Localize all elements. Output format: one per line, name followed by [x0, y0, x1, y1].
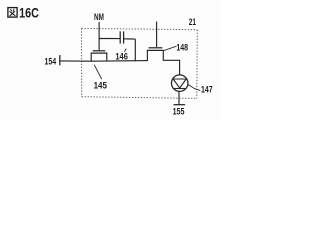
- wire transistor 148 to LED: [163, 60, 180, 75]
- terminal 155 bar: [174, 104, 186, 106]
- LED 147 circle: [171, 75, 188, 92]
- wire terminal 154 to transistor 145: [60, 60, 91, 62]
- svg-text:155: 155: [173, 105, 185, 116]
- leader line for 145: [94, 65, 102, 80]
- capacitor C146 left plate: [119, 31, 121, 43]
- transistor 145 drain leg: [106, 53, 108, 61]
- leader line for 147: [188, 84, 201, 90]
- LED 147 cathode bar: [174, 88, 185, 90]
- wire capacitor to drop: [124, 38, 136, 40]
- transistor 148 drain leg: [162, 50, 164, 60]
- transistor 148 channel bar: [147, 49, 164, 51]
- LED 147 triangle anode: [173, 79, 186, 88]
- node NM lead wire: [98, 22, 100, 50]
- terminal 154 bar: [59, 55, 61, 65]
- box right edge: [196, 30, 199, 99]
- svg-text:145: 145: [94, 79, 107, 90]
- box top edge: [82, 28, 198, 29]
- wire rail NM to capacitor: [99, 38, 121, 40]
- box left edge: [81, 28, 83, 96]
- dashed cell boundary 21 (box): [82, 28, 198, 98]
- svg-text:21: 21: [189, 17, 197, 28]
- svg-text:154: 154: [45, 55, 57, 66]
- capacitor C146 right plate: [123, 31, 125, 43]
- svg-text:148: 148: [176, 43, 188, 53]
- leader line for 148: [164, 46, 177, 50]
- transistor 145 channel bar: [91, 52, 108, 54]
- transistor 148 gate lead wire: [156, 22, 158, 47]
- wire capacitor drop to S/D line: [134, 39, 136, 61]
- box bottom edge: [82, 97, 197, 99]
- svg-text:147: 147: [201, 85, 213, 95]
- svg-text:16C: 16C: [19, 6, 39, 22]
- wire transistor 145 to transistor 148: [91, 60, 148, 63]
- transistor 145 gate bar: [93, 50, 106, 52]
- transistor 145 source leg: [90, 53, 92, 61]
- svg-text:146: 146: [115, 52, 128, 62]
- transistor 148 gate bar: [149, 47, 163, 49]
- wire LED to terminal 155: [178, 91, 180, 104]
- svg-text:NM: NM: [94, 11, 104, 22]
- transistor 148 source leg: [146, 50, 148, 60]
- figure title 図16C: [8, 8, 17, 18]
- leader line for 146: [124, 49, 126, 52]
